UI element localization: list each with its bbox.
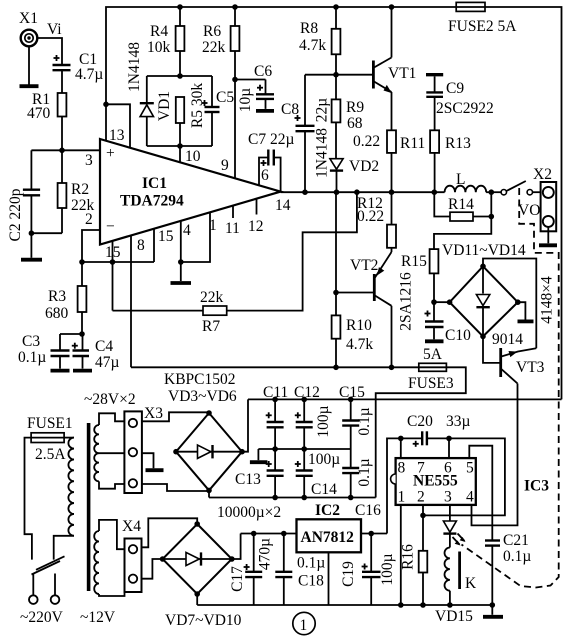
svg-text:3: 3	[444, 489, 452, 506]
wire X3 centre tap to ground	[142, 453, 154, 468]
svg-text:AN7812: AN7812	[301, 529, 355, 546]
connector X2	[518, 166, 556, 231]
wire bridge2 plus to 7812 rail	[232, 534, 241, 560]
svg-text:VD1: VD1	[156, 91, 173, 121]
wire pin3 to VD15	[449, 505, 451, 521]
wire 7812 ground pin	[328, 552, 330, 605]
pin 8 wire to minus rail	[130, 235, 132, 367]
svg-text:0.1µ: 0.1µ	[356, 458, 373, 486]
wire R3 to C3	[60, 333, 82, 335]
svg-text:C6: C6	[254, 63, 272, 80]
svg-text:VT3: VT3	[516, 359, 545, 376]
svg-text:−: −	[106, 218, 115, 235]
svg-text:C18: C18	[298, 573, 324, 590]
node VT2 base junction	[333, 290, 339, 296]
svg-text:0.22: 0.22	[357, 208, 384, 225]
resistor R1 470	[27, 91, 66, 122]
svg-text:2SA1216: 2SA1216	[398, 272, 415, 331]
node rail R8 tap	[333, 4, 339, 10]
wire base bus	[305, 74, 372, 76]
wire after L	[486, 191, 501, 193]
resistor R7 22k feedback	[113, 192, 357, 335]
svg-text:0.1µ: 0.1µ	[18, 349, 46, 366]
ground at bridge right	[518, 319, 534, 323]
svg-text:8: 8	[137, 237, 145, 254]
capacitor C6 10u	[235, 63, 274, 112]
svg-text:VD11~VD14: VD11~VD14	[442, 242, 526, 259]
svg-text:~220V: ~220V	[20, 609, 64, 626]
svg-text:VD7~VD10: VD7~VD10	[165, 612, 242, 629]
node pin1 ground	[398, 602, 404, 608]
wire X3 bottom to bridge1	[142, 484, 209, 491]
node pin10 junction	[177, 143, 183, 149]
node C14 bottom	[301, 495, 307, 501]
wire pin1 to ground rail	[400, 505, 402, 605]
node L right on rail	[489, 189, 495, 195]
svg-text:10: 10	[185, 148, 201, 165]
bridge VD7~VD10	[160, 521, 242, 629]
svg-text:R13: R13	[445, 135, 471, 152]
node R14 left on rail	[432, 189, 438, 195]
svg-text:C15: C15	[339, 384, 365, 401]
svg-text:R6: R6	[203, 23, 221, 40]
resistor R14	[434, 192, 491, 221]
svg-text:4: 4	[466, 489, 474, 506]
resistor R13	[430, 130, 471, 192]
svg-text:Vi: Vi	[47, 21, 62, 38]
svg-text:14: 14	[275, 197, 291, 214]
svg-text:VO: VO	[518, 202, 540, 219]
svg-text:C16: C16	[355, 502, 381, 519]
svg-text:KBPC1502: KBPC1502	[164, 371, 236, 388]
pin 2 wire	[82, 211, 101, 262]
transformer primary winding	[68, 438, 74, 536]
op-amp IC1 TDA7294	[100, 139, 281, 245]
wire R2 bottom to C2 node	[31, 232, 62, 234]
svg-text:47µ: 47µ	[95, 354, 120, 371]
svg-text:1: 1	[209, 217, 217, 234]
diode VD2 1N4148	[314, 128, 380, 192]
resistor R2 22k	[58, 150, 95, 233]
transformer core	[87, 423, 91, 591]
capacitor C5	[202, 76, 235, 146]
svg-text:X1: X1	[19, 10, 38, 27]
bridge KBPC1502 VD3~VD6	[164, 371, 245, 493]
ground below pin4	[171, 281, 192, 285]
svg-text:680: 680	[45, 305, 69, 322]
fuse FUSE2 5A	[448, 2, 517, 35]
node R14 right	[489, 214, 495, 220]
pin 11 stub	[232, 206, 234, 218]
svg-text:~28V×2: ~28V×2	[84, 391, 136, 408]
node VD2 bottom on rail	[334, 189, 340, 195]
svg-text:4: 4	[183, 222, 191, 239]
svg-text:5: 5	[466, 460, 474, 477]
svg-text:1N4148: 1N4148	[126, 42, 143, 92]
node C2/R2 junction	[29, 230, 35, 236]
connector X1	[19, 10, 38, 46]
svg-text:100µ: 100µ	[315, 405, 332, 437]
svg-text:2: 2	[417, 489, 425, 506]
svg-text:11: 11	[225, 220, 240, 237]
svg-text:1: 1	[398, 489, 406, 506]
svg-text:R4: R4	[150, 23, 168, 40]
svg-text:0.1µ: 0.1µ	[503, 548, 531, 565]
switch mains	[32, 556, 65, 574]
wire C1 to R1	[61, 70, 63, 93]
node pin2 junction	[420, 513, 426, 519]
capacitor C16 0.1u	[342, 449, 381, 519]
svg-text:VT2: VT2	[350, 257, 378, 274]
svg-text:13: 13	[109, 127, 125, 144]
resistor R11 0.22	[353, 130, 425, 192]
wire feedback bus y262	[82, 261, 154, 263]
capacitor C9 on heatsink	[426, 75, 494, 131]
svg-text:5A: 5A	[423, 346, 443, 363]
capacitor C15 0.1u	[339, 384, 373, 449]
svg-text:C4: C4	[95, 338, 113, 355]
capacitor C17 470u	[229, 534, 274, 606]
wire X4 top to bridge2 top	[142, 518, 198, 547]
capacitor C1 4.7u	[53, 51, 104, 83]
svg-text:1N4148: 1N4148	[314, 128, 331, 178]
wire minus rail bottom	[209, 497, 376, 499]
timer IC3 NE555	[391, 458, 550, 505]
node C17 top	[251, 531, 257, 537]
wire VT2 base	[336, 292, 373, 294]
node C12 bottom	[301, 446, 307, 452]
capacitor C14 100u	[295, 449, 340, 498]
svg-text:C21: C21	[503, 532, 529, 549]
svg-text:9: 9	[221, 157, 229, 174]
node pin4 tee	[178, 259, 184, 265]
svg-text:22µ: 22µ	[314, 98, 331, 123]
svg-text:C8: C8	[281, 101, 299, 118]
svg-text:VD15: VD15	[435, 608, 473, 625]
svg-text:X2: X2	[533, 166, 552, 183]
node C13 bottom	[272, 495, 278, 501]
capacitor C4 47u	[72, 334, 120, 371]
node feedback tee	[79, 259, 85, 265]
fuse FUSE3 5A	[408, 346, 454, 392]
wire ground rail bottom	[197, 604, 492, 606]
node rail R4 tap	[177, 4, 183, 10]
svg-text:22k: 22k	[202, 39, 226, 56]
wire negative supply bus	[131, 366, 419, 368]
resistor R15	[401, 192, 491, 302]
node rail VT1 tap	[389, 4, 395, 10]
svg-text:C13: C13	[235, 471, 261, 488]
wire bridge1 plus to +V rail	[242, 399, 248, 451]
pin 12 stub	[256, 199, 258, 215]
svg-text:15: 15	[158, 228, 174, 245]
resistor R5 30k	[176, 83, 206, 146]
fuse FUSE1 2.5A	[27, 415, 73, 463]
svg-text:4.7µ: 4.7µ	[75, 66, 103, 83]
resistor R16	[400, 544, 428, 605]
capacitor C8 22u	[281, 75, 331, 193]
ground below X2	[539, 227, 557, 245]
resistor R3 680	[45, 262, 86, 334]
wire VD1/R5/C5 bottom bus	[147, 145, 212, 147]
svg-text:VT1: VT1	[388, 65, 416, 82]
wire output rail	[281, 191, 445, 193]
node R3 bottom	[79, 331, 85, 337]
svg-text:7: 7	[417, 460, 425, 477]
wire 7812 output	[361, 533, 387, 535]
pin 1 wire	[181, 212, 210, 262]
connector X3	[124, 405, 163, 493]
svg-text:15: 15	[105, 244, 121, 261]
capacitor C21 0.1u	[485, 532, 531, 605]
svg-text:FUSE3: FUSE3	[408, 375, 454, 392]
svg-text:R7: R7	[202, 318, 220, 335]
node R6 bottom junction	[232, 77, 238, 83]
svg-text:12: 12	[248, 218, 264, 235]
svg-text:9014: 9014	[492, 331, 523, 348]
symbol circled 1	[293, 612, 315, 634]
transistor VT1	[373, 7, 416, 130]
svg-text:R14: R14	[448, 196, 474, 213]
svg-text:K: K	[465, 575, 477, 592]
svg-text:R9: R9	[346, 99, 364, 116]
svg-text:8: 8	[398, 460, 406, 477]
svg-text:6: 6	[261, 167, 269, 184]
svg-text:R8: R8	[300, 20, 318, 37]
wire +V rail	[248, 398, 562, 400]
capacitor C19 100u	[340, 534, 396, 606]
wire 7812 input rail	[241, 533, 297, 535]
svg-text:R15: R15	[401, 253, 427, 270]
connector X4	[122, 518, 142, 592]
svg-text:470µ: 470µ	[257, 538, 274, 570]
wire R15 to bridge left vertex	[434, 301, 450, 303]
pin 15b wire	[153, 229, 155, 262]
capacitor C13	[235, 449, 284, 498]
diode VD1 1N4148	[126, 42, 173, 146]
terminal circles 220V	[29, 595, 38, 604]
transformer secondary winding 2	[94, 520, 124, 596]
svg-text:C5: C5	[216, 89, 234, 106]
capacitor C12 100u	[294, 384, 332, 449]
svg-text:R2: R2	[71, 181, 89, 198]
resistor R9 68	[332, 75, 365, 159]
svg-text:10µ: 10µ	[237, 88, 254, 113]
node R10 bottom	[333, 365, 339, 371]
svg-text:VD2: VD2	[349, 158, 379, 175]
node R16 ground	[420, 602, 426, 608]
resistor R10 4.7k	[332, 315, 374, 367]
ground centre tap	[146, 468, 164, 472]
node C20 left / pin8	[398, 436, 404, 442]
resistor R4 10k	[147, 7, 184, 76]
ground below C2	[21, 258, 42, 262]
svg-text:R3: R3	[48, 288, 66, 305]
capacitor C11	[263, 384, 288, 449]
svg-text:FUSE1: FUSE1	[27, 415, 73, 432]
wire pin5 to C21	[469, 446, 492, 541]
dashed relay linkage	[462, 188, 559, 588]
svg-text:100µ: 100µ	[379, 553, 396, 585]
pin 13 wire	[103, 102, 130, 148]
wire FUSE3 to minus rail below	[376, 367, 466, 497]
svg-text:33µ: 33µ	[446, 413, 471, 430]
wire VD2 chain to VT2 base	[335, 192, 337, 315]
wire bridge2 minus to ground rail	[196, 594, 198, 605]
node C16 bottom	[348, 495, 354, 501]
relay coil K	[445, 534, 478, 605]
regulator IC2 AN7812	[297, 502, 362, 552]
svg-text:10k: 10k	[147, 39, 171, 56]
wire R1 to input node	[61, 117, 63, 151]
svg-text:2.5A: 2.5A	[35, 446, 66, 463]
capacitor C20 33u	[401, 413, 471, 447]
svg-text:C19: C19	[340, 561, 357, 587]
svg-text:C10: C10	[445, 327, 471, 344]
wire mid ground rail	[258, 448, 350, 450]
node rail R6 tap	[232, 4, 238, 10]
svg-text:C2 220p: C2 220p	[7, 188, 24, 241]
bridge VD11~VD14	[442, 242, 556, 339]
node C18 top	[281, 531, 287, 537]
svg-text:22k: 22k	[200, 289, 224, 306]
svg-text:FUSE2 5A: FUSE2 5A	[448, 18, 517, 35]
led VD15	[435, 521, 473, 625]
svg-text:C14: C14	[311, 481, 337, 498]
wire pin6 to pin2 link	[423, 438, 505, 515]
wire bridge top to VT3 collector	[483, 259, 536, 349]
svg-text:C20: C20	[407, 413, 433, 430]
svg-text:X3: X3	[144, 405, 163, 422]
wire 7812 output up to C20/pin8	[387, 438, 401, 533]
ground symbol right end	[483, 605, 503, 617]
node R15 bottom / C10 top	[431, 299, 437, 305]
svg-text:4.7k: 4.7k	[346, 336, 373, 353]
svg-text:C9: C9	[446, 80, 464, 97]
svg-text:C7 22µ: C7 22µ	[248, 131, 294, 148]
svg-text:IC1: IC1	[142, 175, 167, 192]
wire X1 to C1	[37, 38, 62, 64]
node VT2 collector	[389, 365, 395, 371]
switch contact	[501, 181, 541, 195]
svg-text:3: 3	[85, 152, 93, 169]
wire pin8 stem	[400, 438, 402, 458]
node R4 bottom junction	[177, 73, 183, 79]
svg-text:4.7k: 4.7k	[299, 37, 326, 54]
node R11/R12 on rail	[389, 189, 395, 195]
wire X3 top to bridge1	[142, 412, 209, 421]
svg-text:10000µ×2: 10000µ×2	[217, 504, 281, 521]
resistor R12 0.22	[357, 192, 396, 252]
transformer secondary winding 1	[94, 413, 124, 488]
svg-text:R11: R11	[400, 135, 425, 152]
node pin15a tee	[110, 259, 116, 265]
wire input node to pin3	[31, 149, 100, 151]
svg-text:~12V: ~12V	[80, 609, 116, 626]
wire bridge bottom to VT3 base	[483, 336, 500, 363]
pin 4 wire to ground	[180, 221, 182, 281]
resistor R6 22k	[202, 7, 239, 80]
svg-text:68: 68	[347, 115, 363, 132]
svg-text:470: 470	[27, 105, 51, 122]
svg-text:0.22: 0.22	[353, 133, 380, 150]
svg-text:0.1µ: 0.1µ	[297, 555, 325, 572]
node C11 bottom	[272, 446, 278, 452]
capacitor C10	[425, 302, 472, 344]
wire primary right	[64, 437, 74, 439]
wire VD1/R5/C5 top bus	[147, 75, 212, 77]
resistor R8 4.7k	[299, 7, 340, 75]
node C19 top	[368, 531, 374, 537]
node C8 bottom on rail	[302, 189, 308, 195]
wire pin 10	[179, 146, 181, 163]
svg-text:C17: C17	[229, 566, 246, 592]
node input junction	[59, 148, 65, 154]
svg-text:X4: X4	[122, 518, 141, 535]
node R7 feedback on rail	[354, 189, 360, 195]
svg-text:2SC2922: 2SC2922	[436, 100, 494, 117]
wire bridge right vertex to ground	[518, 302, 526, 319]
svg-text:L: L	[456, 171, 465, 188]
svg-text:+: +	[106, 145, 115, 162]
svg-text:4148×4: 4148×4	[539, 276, 556, 324]
transistor VT2 2SA1216	[350, 252, 415, 367]
wire top rail	[106, 7, 562, 399]
wire primary left	[25, 438, 32, 560]
wire junction to ground	[30, 233, 32, 258]
svg-text:IC3: IC3	[524, 478, 549, 495]
svg-text:1: 1	[300, 617, 308, 634]
svg-text:0.1µ: 0.1µ	[356, 407, 373, 435]
ground below X1	[20, 46, 39, 86]
wire pin6 stem	[448, 438, 450, 458]
capacitor C3 0.1u	[18, 333, 70, 371]
svg-text:R16: R16	[400, 544, 417, 570]
svg-text:C12: C12	[294, 384, 320, 401]
capacitor C7 22u bootstrap	[248, 131, 294, 192]
wire pin 9	[234, 80, 236, 179]
capacitor C18 0.1u	[275, 534, 325, 606]
transistor VT3 9014	[492, 331, 545, 384]
wire pin4 to VT3 emitter	[472, 384, 518, 526]
node K ground	[447, 602, 453, 608]
svg-text:100µ: 100µ	[308, 451, 340, 468]
svg-text:R10: R10	[346, 317, 372, 334]
ground mid rail	[250, 449, 268, 462]
svg-text:IC2: IC2	[315, 502, 340, 519]
svg-text:6: 6	[444, 460, 452, 477]
wire pin2 stem	[422, 505, 424, 551]
svg-text:2: 2	[85, 211, 93, 228]
pin 15a wire	[112, 241, 114, 311]
svg-text:R5 30k: R5 30k	[189, 83, 206, 128]
wire bridge1 minus down	[208, 490, 210, 497]
svg-text:C3: C3	[22, 333, 40, 350]
node C21 ground	[490, 602, 496, 608]
inductor L	[445, 171, 487, 192]
node VT1 base bus left	[333, 72, 339, 78]
svg-text:TDA7294: TDA7294	[120, 193, 184, 210]
node C20 right / pin6	[446, 436, 452, 442]
svg-text:C11: C11	[263, 384, 288, 401]
capacitor C2 220p	[7, 150, 40, 241]
svg-text:VD3~VD6: VD3~VD6	[168, 388, 237, 405]
wire X4 bottom to bridge2 left	[142, 559, 163, 579]
